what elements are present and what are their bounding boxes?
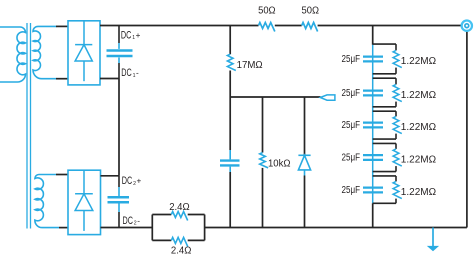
svg-text:1.22MΩ: 1.22MΩ [401, 89, 436, 101]
svg-text:DC: DC [123, 215, 134, 227]
svg-text:25μF: 25μF [342, 120, 361, 131]
svg-text:10kΩ: 10kΩ [268, 157, 291, 169]
svg-text:+: + [136, 31, 141, 40]
svg-text:25μF: 25μF [342, 88, 361, 99]
svg-text:25μF: 25μF [342, 152, 361, 163]
svg-text:+: + [137, 177, 142, 186]
svg-text:DC: DC [121, 67, 132, 79]
svg-text:50Ω: 50Ω [302, 5, 320, 17]
svg-text:DC: DC [121, 29, 132, 41]
svg-text:DC: DC [122, 175, 133, 187]
svg-text:-: - [136, 69, 139, 78]
svg-text:17MΩ: 17MΩ [237, 59, 263, 71]
svg-text:25μF: 25μF [342, 185, 361, 196]
svg-text:1.22MΩ: 1.22MΩ [401, 186, 436, 198]
svg-text:2.4Ω: 2.4Ω [171, 245, 192, 257]
svg-text:-: - [137, 216, 140, 225]
svg-text:25μF: 25μF [342, 54, 361, 65]
svg-text:2.4Ω: 2.4Ω [169, 201, 190, 213]
svg-text:50Ω: 50Ω [258, 5, 276, 17]
svg-text:1.22MΩ: 1.22MΩ [401, 154, 436, 166]
svg-text:1.22MΩ: 1.22MΩ [401, 121, 436, 133]
svg-text:1.22MΩ: 1.22MΩ [401, 55, 436, 67]
